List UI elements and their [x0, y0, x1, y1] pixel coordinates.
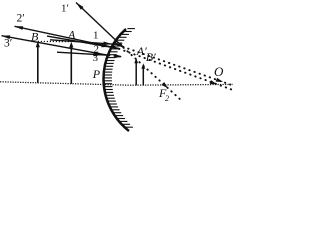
svg-text:O: O [214, 64, 224, 79]
svg-text:3: 3 [93, 52, 99, 64]
svg-text:A: A [67, 28, 76, 42]
svg-text:2: 2 [165, 94, 169, 103]
svg-text:3′: 3′ [4, 38, 12, 50]
svg-text:P: P [92, 67, 101, 81]
svg-text:1′: 1′ [61, 3, 69, 15]
svg-text:1: 1 [93, 30, 99, 42]
svg-text:B′: B′ [146, 50, 156, 64]
svg-text:B: B [31, 30, 39, 44]
svg-text:2′: 2′ [17, 13, 25, 25]
